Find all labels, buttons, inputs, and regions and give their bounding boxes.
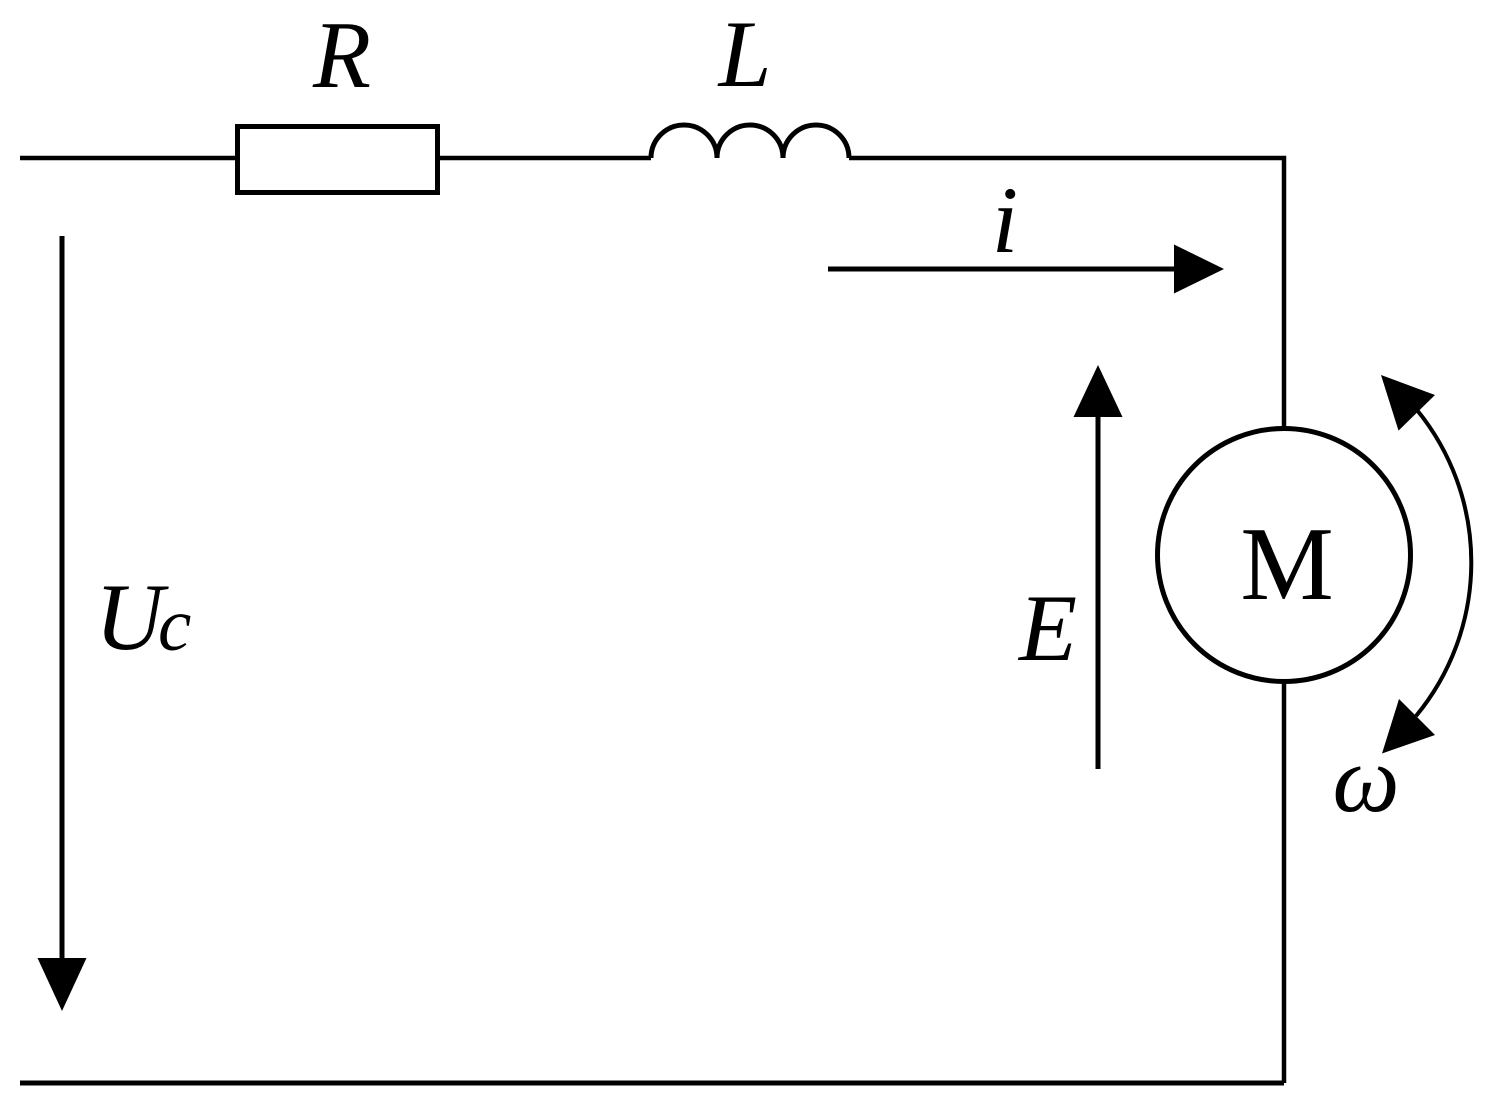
svg-text:L: L: [717, 1, 772, 107]
svg-text:R: R: [312, 2, 371, 108]
svg-text:ω: ω: [1332, 726, 1399, 832]
svg-text:c: c: [158, 584, 191, 667]
svg-text:E: E: [1017, 575, 1077, 681]
svg-text:M: M: [1240, 505, 1333, 622]
svg-text:i: i: [992, 167, 1018, 273]
